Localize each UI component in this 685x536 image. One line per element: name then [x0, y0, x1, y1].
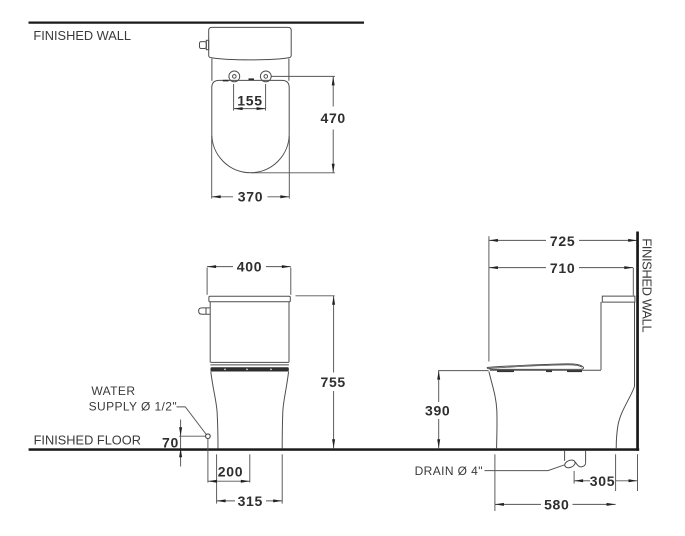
- flush lever (front): [199, 308, 211, 314]
- dim 370 extension lines: [211, 136, 213, 199]
- drain leader: [485, 465, 565, 471]
- pedestal left profile (front): [211, 372, 218, 449]
- dim 315 line + arrows: [217, 500, 235, 502]
- tank body (front): [209, 302, 211, 363]
- svg-text:DRAIN Ø 4": DRAIN Ø 4": [415, 464, 483, 478]
- bowl front profile (side): [489, 371, 497, 448]
- svg-text:470: 470: [320, 110, 345, 126]
- dim 390 line + arrows: [438, 371, 440, 402]
- tank (plan): [209, 27, 292, 60]
- water supply leader: [177, 407, 207, 435]
- dim 580 extension lines: [494, 454, 496, 511]
- svg-text:305: 305: [590, 473, 615, 489]
- below-floor extension: water supply line: [207, 439, 209, 483]
- dim 710 line + arrows: [489, 267, 546, 269]
- seat top edge dashes: [223, 80, 229, 82]
- flush button (plan): [206, 40, 208, 49]
- below-floor extension: pedestal left: [216, 454, 218, 503]
- seat outline (plan): [212, 80, 289, 172]
- dim 370 line + arrows: [212, 196, 233, 198]
- svg-text:70: 70: [162, 434, 179, 450]
- water supply point: [206, 434, 211, 439]
- pedestal right profile (front): [282, 372, 288, 449]
- dim 155 extension lines: [233, 84, 235, 111]
- dim 470 extension lines: [272, 75, 335, 77]
- dim 200 line + arrows: [208, 480, 250, 482]
- body sides below tank: [211, 59, 213, 81]
- svg-text:400: 400: [237, 258, 262, 274]
- drain pipe: [564, 451, 566, 461]
- svg-text:FINISHED FLOOR: FINISHED FLOOR: [34, 433, 141, 448]
- pedestal back profile (side): [616, 387, 634, 449]
- dim 400 extension lines: [206, 268, 208, 295]
- seat bumpers (side): [497, 370, 514, 372]
- drain center extension line: [573, 471, 575, 484]
- dim 305 line + arrows: [574, 480, 590, 482]
- dim 580 line + arrows: [495, 503, 541, 505]
- svg-text:155: 155: [237, 93, 262, 109]
- svg-text:FINISHED WALL: FINISHED WALL: [640, 238, 655, 332]
- svg-text:315: 315: [238, 493, 263, 509]
- dim 725 line + arrows: [489, 239, 546, 241]
- svg-text:370: 370: [238, 188, 263, 204]
- hinge left (plan): [229, 71, 240, 82]
- svg-text:725: 725: [550, 233, 575, 249]
- finished wall line (top): [29, 22, 365, 24]
- dim 155 line + arrows: [234, 108, 266, 110]
- hinge right (plan): [260, 71, 271, 82]
- tank lid (side): [602, 296, 635, 302]
- below-floor extension: pedestal right: [281, 454, 283, 503]
- dim 470 line + arrows: [332, 76, 334, 106]
- wall extension line below floor: [637, 454, 639, 491]
- svg-text:SUPPLY Ø 1/2": SUPPLY Ø 1/2": [89, 400, 177, 414]
- svg-text:710: 710: [550, 260, 575, 276]
- finished wall line (side, vertical): [636, 232, 639, 451]
- seat band (front): [210, 361, 289, 363]
- svg-text:390: 390: [425, 403, 450, 419]
- dim 755 line + arrows: [333, 296, 335, 373]
- dim 390 extension line: [438, 370, 488, 372]
- dim 70 line + arrows: [180, 420, 182, 467]
- tank back line (side): [634, 302, 636, 386]
- svg-text:WATER: WATER: [91, 384, 135, 398]
- finished floor line: [29, 448, 640, 451]
- tank front line (side): [600, 302, 602, 370]
- bowl rim line (side): [490, 369, 601, 371]
- svg-text:755: 755: [320, 374, 345, 390]
- dim 400 line + arrows: [207, 266, 233, 268]
- dim 725/710 left extension line: [488, 236, 490, 361]
- svg-text:FINISHED WALL: FINISHED WALL: [33, 28, 131, 43]
- below-floor extension: centerline: [249, 454, 251, 482]
- seat lid (side): [487, 364, 583, 370]
- dim 710 right extension line: [632, 268, 634, 296]
- dim 70 extension line: [179, 435, 205, 437]
- svg-text:200: 200: [218, 464, 243, 480]
- svg-text:580: 580: [544, 497, 569, 513]
- tank lid (front): [209, 296, 290, 302]
- dim 755 extension line: [296, 295, 335, 297]
